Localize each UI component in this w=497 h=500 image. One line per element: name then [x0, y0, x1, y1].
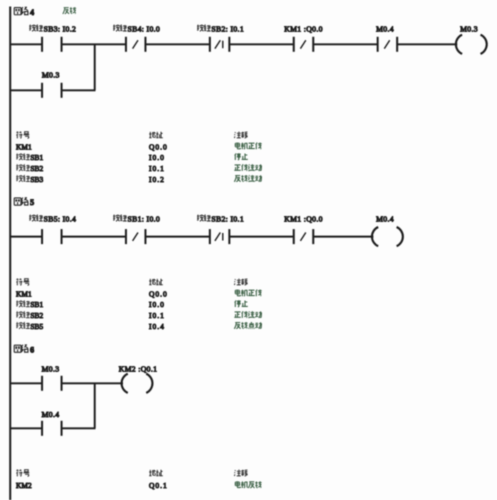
network 5 header [14, 198, 28, 206]
branch junction vertical [94, 44, 96, 90]
svg-text:SB3: I0.2: SB3: I0.2 [44, 24, 77, 33]
svg-text:I0.1: I0.1 [149, 311, 165, 320]
contact SB4 I0.0 (NC) [125, 37, 127, 52]
svg-text:5: 5 [30, 198, 34, 207]
contact M0.3 (NO) [41, 376, 43, 391]
svg-text:6: 6 [30, 345, 34, 354]
table row [17, 279, 30, 286]
svg-text:SB1: SB1 [30, 153, 43, 162]
table row [17, 470, 30, 477]
svg-text:SB4: I0.0: SB4: I0.0 [128, 24, 161, 33]
contact M0.3 (NO) [41, 83, 43, 98]
svg-text:KM1 :Q0.0: KM1 :Q0.0 [284, 24, 323, 33]
svg-text:M0.3: M0.3 [42, 71, 60, 80]
label 按钮SB1: I0.0 [113, 215, 127, 222]
svg-text:M0.4: M0.4 [42, 410, 60, 419]
svg-text:KM1: KM1 [16, 142, 32, 151]
coil M0.3 [456, 35, 462, 54]
svg-text:KM2 :Q0.1: KM2 :Q0.1 [119, 365, 158, 374]
left power rail [9, 7, 11, 500]
label 按钮SB5: I0.4 [29, 215, 43, 222]
branch junction vertical net6 [94, 383, 96, 428]
svg-text:Q0.0: Q0.0 [149, 142, 168, 151]
svg-text:KM1 :Q0.0: KM1 :Q0.0 [284, 214, 323, 223]
contact KM1 Q0.0 (NC) [293, 37, 295, 52]
coil KM2 Q0.1 [122, 374, 128, 393]
svg-text:KM1: KM1 [16, 289, 32, 298]
svg-text:SB2: I0.1: SB2: I0.1 [211, 24, 244, 33]
wire rung2 net4 [11, 89, 42, 91]
svg-text:SB1: I0.0: SB1: I0.0 [128, 214, 161, 223]
contact SB2 I0.1 (NC immediate) [209, 229, 211, 244]
contact M0.4 (NC) [377, 37, 379, 52]
svg-text:SB5: I0.4: SB5: I0.4 [44, 214, 77, 223]
table row [16, 322, 30, 329]
table row [16, 164, 30, 171]
network 4 header [14, 7, 28, 15]
svg-text:I0.0: I0.0 [149, 300, 165, 309]
svg-text:KM2: KM2 [16, 481, 32, 490]
svg-text:SB2: I0.1: SB2: I0.1 [211, 214, 244, 223]
contact SB3 I0.2 (NO) [41, 37, 43, 52]
svg-text:M0.4: M0.4 [376, 24, 394, 33]
contact SB2 I0.1 (NC immediate) [209, 37, 211, 52]
svg-text:I0.4: I0.4 [149, 322, 165, 331]
svg-text:M0.3: M0.3 [42, 365, 60, 374]
network 4 title 反转 [63, 7, 76, 14]
wire rung net5 [11, 236, 42, 238]
svg-text:M0.4: M0.4 [376, 214, 394, 223]
table row [16, 300, 30, 307]
svg-text:SB2: SB2 [30, 311, 43, 320]
wire rung1 net4 [11, 43, 42, 45]
wire rung2 net6 [11, 427, 42, 429]
label 按钮SB2: I0.1 [197, 25, 211, 32]
contact KM1 Q0.0 (NC) [293, 229, 295, 244]
svg-text:I0.0: I0.0 [149, 153, 165, 162]
contact M0.4 (NO) [41, 421, 43, 436]
svg-text:SB2: SB2 [30, 164, 43, 173]
table row [16, 175, 30, 182]
label 按钮SB2: I0.1 [197, 215, 211, 222]
svg-text:I0.1: I0.1 [149, 164, 165, 173]
network 6 header [14, 345, 28, 353]
svg-text:SB1: SB1 [30, 300, 43, 309]
wire rung1 net6 [11, 382, 42, 384]
coil M0.4 [372, 227, 378, 246]
contact SB5 I0.4 (NO) [41, 229, 43, 244]
svg-text:4: 4 [30, 8, 34, 17]
contact SB1 I0.0 (NC) [125, 229, 127, 244]
label 按钮SB3: I0.2 [29, 25, 43, 32]
svg-text:Q0.0: Q0.0 [149, 289, 168, 298]
table row [16, 311, 30, 318]
svg-text:I0.2: I0.2 [149, 175, 165, 184]
label 按钮SB4: I0.0 [113, 25, 127, 32]
table row [16, 153, 30, 160]
svg-text:SB5: SB5 [30, 322, 43, 331]
svg-text:SB3: SB3 [30, 175, 43, 184]
svg-text:M0.3: M0.3 [460, 24, 478, 33]
table row [17, 132, 30, 139]
svg-text:Q0.1: Q0.1 [149, 481, 168, 490]
